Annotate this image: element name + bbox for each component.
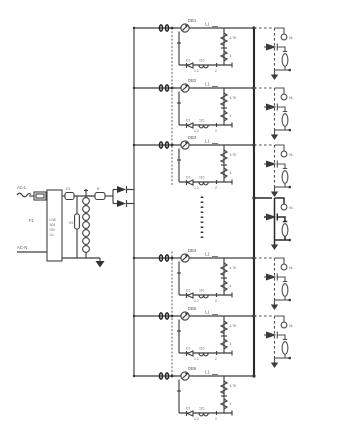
diode D1	[186, 59, 193, 69]
dotted rail upper	[171, 28, 173, 185]
wire module3 feed	[254, 144, 272, 146]
wire module5 bottom tap	[275, 299, 292, 302]
op-amp U1 regulator	[47, 190, 62, 261]
node row3 bottom junction	[194, 180, 217, 190]
svg-text:1.2: 1.2	[194, 69, 199, 73]
LED D3m	[264, 161, 287, 169]
LED D1m	[264, 44, 287, 52]
right bus	[253, 28, 255, 376]
connector J3	[159, 142, 168, 148]
resistor R3a 4.7K	[221, 150, 237, 163]
capacitor C6a	[221, 399, 232, 409]
capacitor C4a	[221, 281, 232, 291]
svg-text:2: 2	[215, 129, 217, 133]
svg-text:1.2: 1.2	[194, 129, 199, 133]
svg-text:DB3: DB3	[188, 135, 197, 140]
svg-text:L1: L1	[205, 310, 210, 315]
resistor R1a 4.7K	[221, 33, 237, 46]
svg-text:4.7K: 4.7K	[230, 266, 238, 270]
wire PSU bottom	[62, 257, 100, 259]
wire module6 feed	[254, 315, 272, 317]
node row1 mid tap	[221, 47, 227, 49]
resistor R1b 110	[199, 59, 208, 68]
inductor L6	[205, 370, 218, 375]
node row2 bottom junction	[194, 123, 217, 133]
svg-text:L1: L1	[205, 139, 210, 144]
node row1 junction	[171, 27, 174, 30]
svg-text:DB5: DB5	[188, 306, 197, 311]
LED D5m	[264, 274, 287, 282]
node row1 bottom junction	[194, 63, 217, 73]
lamp HL3	[275, 145, 294, 157]
wire module6 vertical	[274, 316, 276, 358]
node ellipsis (omitted rows)	[201, 197, 204, 239]
svg-text:2: 2	[215, 299, 217, 303]
lamp HL1	[275, 28, 294, 40]
node row1 left bus junction	[133, 27, 135, 29]
diode D4	[186, 289, 193, 299]
node row4 right bus junction	[252, 256, 255, 259]
svg-text:4.7K: 4.7K	[230, 153, 238, 157]
wire Q3 emitter leg	[177, 149, 181, 183]
svg-text:AC-N: AC-N	[17, 245, 27, 250]
node row2 right bus junction	[252, 86, 255, 89]
svg-text:110: 110	[199, 347, 205, 351]
net AC-N label	[17, 245, 47, 252]
wire module1 vertical	[274, 28, 276, 70]
svg-text:D1: D1	[186, 119, 190, 123]
diode D5	[186, 347, 193, 357]
ground PSU	[96, 258, 105, 268]
svg-text:L1: L1	[205, 82, 210, 87]
diode D2	[117, 186, 134, 193]
svg-text:1.2: 1.2	[194, 186, 199, 190]
transistor Q1	[181, 18, 197, 32]
inductor L4	[205, 252, 218, 257]
svg-text:L1: L1	[205, 370, 210, 375]
wire row3 right drop	[223, 145, 225, 182]
node row4 bottom junction	[194, 293, 217, 303]
node row6 left bus junction	[133, 375, 135, 377]
wire row5 bottom	[179, 351, 232, 356]
node row3 right bus junction	[252, 143, 255, 146]
node row6 mid tap	[221, 395, 227, 397]
node row6 junction	[171, 375, 174, 378]
svg-text:HL: HL	[289, 153, 293, 157]
svg-text:DB6: DB6	[188, 366, 197, 371]
svg-text:U1: U1	[50, 233, 54, 237]
resistor R3	[86, 187, 113, 200]
connector J6	[159, 373, 168, 379]
LED D4m	[264, 214, 287, 222]
resistor R5a 4.7K	[221, 321, 237, 334]
resistor R5b 110	[199, 347, 208, 356]
wire VCC top	[74, 195, 95, 197]
wire module4 vertical	[274, 198, 276, 240]
LED D6m	[264, 332, 287, 340]
svg-text:4.7K: 4.7K	[230, 96, 238, 100]
inductor L3	[205, 139, 218, 144]
resistor R2b 110	[199, 119, 208, 128]
svg-text:1.2: 1.2	[194, 299, 199, 303]
svg-text:HL: HL	[289, 36, 293, 40]
node row2 left bus junction	[133, 87, 135, 89]
wire module5 vertical	[274, 258, 276, 300]
left bus	[133, 28, 135, 376]
connector J5	[159, 313, 168, 319]
svg-text:L1: L1	[205, 22, 210, 27]
transducer B3m	[282, 171, 288, 187]
node row5 right bus junction	[252, 314, 255, 317]
svg-text:HL: HL	[289, 266, 293, 270]
node row1 right bus junction	[252, 26, 255, 29]
svg-text:D1: D1	[186, 289, 190, 293]
node row6 bottom junction	[194, 411, 217, 421]
node row4 mid tap	[221, 277, 227, 279]
svg-text:1.2: 1.2	[194, 357, 199, 361]
inductor L5	[205, 310, 218, 315]
node row3 left bus junction	[133, 144, 135, 146]
svg-text:2: 2	[215, 186, 217, 190]
node row3 junction	[171, 144, 174, 147]
wire row4 right drop	[223, 258, 225, 295]
wire row3 bottom	[179, 180, 232, 185]
ground module6	[271, 358, 278, 368]
svg-text:L1: L1	[205, 252, 210, 257]
svg-text:110: 110	[199, 289, 205, 293]
wire Q1 emitter leg	[177, 32, 181, 66]
wire row4 top	[134, 257, 254, 259]
diode D1	[62, 187, 74, 200]
capacitor C5a	[221, 339, 232, 349]
net AC-L label	[17, 185, 31, 197]
wire Q6 emitter leg	[177, 380, 181, 414]
diode D3	[117, 200, 134, 207]
wire module4 feed	[254, 197, 272, 199]
wire module2 feed	[254, 87, 272, 89]
connector J1	[159, 25, 168, 31]
svg-text:110: 110	[199, 119, 205, 123]
resistor R4b 110	[199, 289, 208, 298]
node row2 junction	[171, 87, 174, 90]
ground module1	[271, 70, 278, 80]
transistor Q5	[181, 306, 197, 320]
node row5 junction	[171, 315, 174, 318]
capacitor C2a	[221, 111, 232, 121]
svg-text:F1: F1	[29, 218, 35, 223]
svg-text:R2: R2	[69, 221, 73, 225]
svg-text:D1: D1	[66, 187, 70, 191]
ground module2	[271, 130, 278, 140]
wire module1 bottom tap	[275, 69, 292, 72]
svg-text:4: 4	[230, 171, 232, 175]
svg-text:2: 2	[215, 357, 217, 361]
wire Q5 emitter leg	[177, 320, 181, 354]
wire module3 bottom tap	[275, 186, 292, 189]
wire row1 right drop	[223, 28, 225, 65]
svg-text:4.7K: 4.7K	[230, 384, 238, 388]
svg-text:4: 4	[230, 284, 232, 288]
svg-text:D1: D1	[186, 59, 190, 63]
connector J2	[159, 85, 168, 91]
resistor R2	[69, 196, 79, 258]
transistor Q2	[181, 78, 197, 92]
inductor L2	[205, 82, 218, 87]
svg-text:HL: HL	[289, 206, 293, 210]
node module4 bus junction	[252, 196, 255, 199]
transformer T1	[83, 189, 90, 258]
svg-text:2: 2	[215, 69, 217, 73]
wire Q4 emitter leg	[177, 262, 181, 296]
resistor R6a 4.7K	[221, 381, 237, 394]
capacitor C1a	[221, 51, 232, 61]
transistor Q3	[181, 135, 197, 149]
svg-text:110: 110	[199, 59, 205, 63]
wire row6 bottom	[179, 411, 232, 416]
svg-text:4.7K: 4.7K	[230, 324, 238, 328]
fuse F1	[29, 192, 46, 223]
svg-text:4: 4	[230, 54, 232, 58]
ground module3	[271, 187, 278, 197]
transducer B4m	[282, 224, 288, 240]
ground module4	[271, 240, 278, 250]
connector J4	[159, 255, 168, 261]
node row5 bottom junction	[194, 351, 217, 361]
wire row2 right drop	[223, 88, 225, 125]
svg-text:2: 2	[215, 417, 217, 421]
transducer B2m	[282, 114, 288, 130]
svg-text:HL: HL	[289, 96, 293, 100]
transducer B5m	[282, 284, 288, 300]
svg-text:D1: D1	[186, 407, 190, 411]
wire Q2 emitter leg	[177, 92, 181, 126]
wire row2 top	[134, 87, 254, 89]
wire row6 right drop	[223, 376, 225, 413]
wire row1 bottom	[179, 63, 232, 68]
resistor R6b 110	[199, 407, 208, 416]
svg-text:LNK: LNK	[50, 218, 57, 222]
svg-text:4: 4	[230, 402, 232, 406]
svg-text:HL: HL	[289, 324, 293, 328]
lamp HL2	[275, 88, 294, 100]
wire row6 top	[134, 375, 254, 377]
wire module2 vertical	[274, 88, 276, 130]
lamp HL5	[275, 258, 294, 270]
lamp HL6	[275, 316, 294, 328]
wire row3 top	[134, 144, 254, 146]
diode D2	[186, 119, 193, 129]
svg-text:AC-L: AC-L	[17, 185, 27, 190]
wire row1 top	[134, 27, 254, 29]
diode D6	[186, 407, 193, 417]
svg-text:110: 110	[199, 407, 205, 411]
wire module5 feed	[254, 257, 272, 259]
transistor Q6	[181, 366, 197, 380]
wire row4 bottom	[179, 293, 232, 298]
inductor L1	[205, 22, 218, 27]
transducer B1m	[282, 54, 288, 70]
node row6 right bus junction	[252, 374, 255, 377]
wire module1 feed	[254, 27, 272, 29]
wire row5 top	[134, 315, 254, 317]
wire module2 bottom tap	[275, 129, 292, 132]
svg-text:1.2: 1.2	[194, 417, 199, 421]
wire row2 bottom	[179, 123, 232, 128]
svg-text:DB1: DB1	[188, 18, 197, 23]
node row3 mid tap	[221, 164, 227, 166]
wire module6 bottom tap	[275, 357, 292, 360]
svg-text:4.7K: 4.7K	[230, 36, 238, 40]
transducer B6m	[282, 342, 288, 358]
svg-text:R: R	[97, 187, 100, 191]
node row2 mid tap	[221, 107, 227, 109]
node row4 left bus junction	[133, 257, 135, 259]
LED D2m	[264, 104, 287, 112]
resistor R4a 4.7K	[221, 263, 237, 276]
node row5 left bus junction	[133, 315, 135, 317]
resistor R3b 110	[199, 176, 208, 185]
svg-text:DB2: DB2	[188, 78, 197, 83]
wire module4 bottom tap	[275, 239, 292, 242]
ground module5	[271, 300, 278, 310]
wire AC-L	[29, 195, 34, 197]
svg-text:110: 110	[199, 176, 205, 180]
svg-text:D1: D1	[186, 347, 190, 351]
lamp HL4	[275, 198, 294, 210]
diode D3	[186, 176, 193, 186]
wire diode split	[113, 190, 117, 204]
svg-text:GN: GN	[50, 228, 56, 232]
resistor R2a 4.7K	[221, 93, 237, 106]
node row5 mid tap	[221, 335, 227, 337]
node row4 junction	[171, 257, 174, 260]
wire row5 right drop	[223, 316, 225, 353]
svg-text:304: 304	[50, 223, 56, 227]
svg-text:D1: D1	[186, 176, 190, 180]
wire module3 vertical	[274, 145, 276, 187]
svg-text:4: 4	[230, 114, 232, 118]
dotted rail lower	[171, 252, 173, 376]
svg-text:DB4: DB4	[188, 248, 197, 253]
capacitor C3a	[221, 168, 232, 178]
svg-text:4: 4	[230, 342, 232, 346]
transistor Q4	[181, 248, 197, 262]
